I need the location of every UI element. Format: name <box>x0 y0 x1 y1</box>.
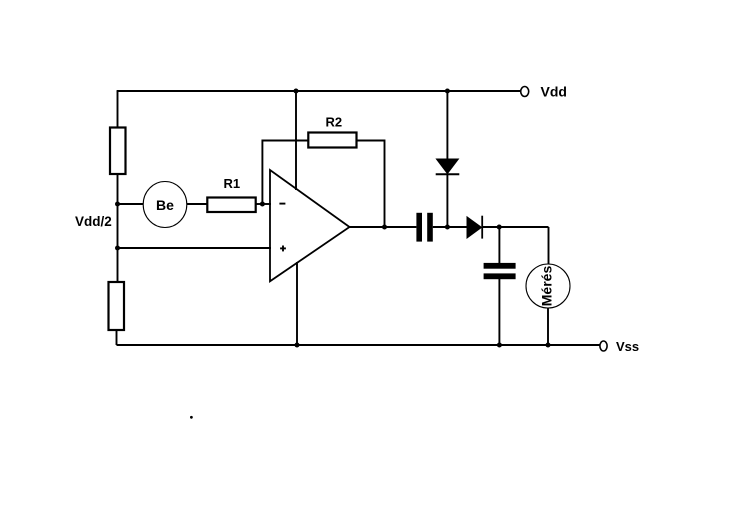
wire: op-amp output to coupling capacitor <box>350 226 417 228</box>
node: D1-output junction dot <box>445 225 450 230</box>
wire: meter to bottom rail <box>547 308 549 345</box>
meter Mérés (circle) <box>526 264 570 308</box>
node: feedback-output junction dot <box>382 225 387 230</box>
stray dot artifact <box>190 416 193 419</box>
wire: node to Be source <box>118 203 144 205</box>
node Vdd/2 junction dot <box>115 202 120 207</box>
terminal Vdd (open circle) <box>521 87 529 97</box>
wire: left rail to divider lower <box>117 248 119 282</box>
wire: divider lower to bottom rail <box>116 330 118 345</box>
wire: divider upper to Vdd/2 node <box>117 174 119 204</box>
wire: capacitor to diode D2 <box>433 226 467 228</box>
svg-text:Vdd/2: Vdd/2 <box>75 214 112 229</box>
wire: right corner down to meter <box>548 227 550 264</box>
capacitor C1 (series coupling, left plate) <box>416 213 422 242</box>
node: D1 junction dot on top rail <box>445 89 450 94</box>
resistor (divider lower) <box>109 282 125 330</box>
wire: feedback up and across to R2 <box>262 141 308 205</box>
node: meter junction dot on bottom rail <box>546 343 551 348</box>
diode D1 cathode bar <box>436 173 460 175</box>
diode D2 (horizontal, anode left) <box>467 217 482 238</box>
capacitor C2 (shunt, top plate) <box>484 263 516 269</box>
op-amp plus symbol <box>280 246 286 252</box>
diode D2 cathode bar <box>481 216 483 239</box>
wire: node to op-amp non-inverting input <box>118 247 272 249</box>
wire: left rail middle segment <box>117 204 119 248</box>
source Be (circle) <box>143 182 187 228</box>
node: C2 junction dot on bottom rail <box>497 343 502 348</box>
wire: op-amp V- supply to bottom rail <box>296 262 298 345</box>
capacitor C1 (right plate) <box>427 213 433 242</box>
diode D1 (vertical, cathode down) <box>436 159 458 174</box>
resistor R1 <box>207 198 255 213</box>
wire: Vdd top rail <box>117 90 521 92</box>
resistor (divider upper) <box>110 128 126 175</box>
node: detector junction dot <box>497 225 502 230</box>
wire: top rail to diode D1 <box>446 91 448 160</box>
node: V+ supply junction dot on top rail <box>294 89 299 94</box>
wire: D2 to detector node and right corner <box>483 226 549 228</box>
wire: Be to R1 <box>187 203 208 205</box>
svg-text:Vss: Vss <box>616 339 639 354</box>
wire: C2 to bottom rail <box>498 279 500 345</box>
wire: op-amp V+ supply from top rail <box>295 91 297 190</box>
svg-text:R2: R2 <box>326 115 343 130</box>
terminal Vss (open circle) <box>600 341 607 351</box>
wire: Vss bottom rail <box>117 344 601 346</box>
resistor R2 <box>308 133 356 148</box>
op-amp U1 (triangle) <box>270 170 350 281</box>
wire: R1 to op-amp inverting input <box>256 203 271 205</box>
node: inverting input junction dot <box>260 202 265 207</box>
op-amp minus symbol <box>279 203 285 205</box>
node: V- supply junction dot on bottom rail <box>295 343 300 348</box>
svg-text:R1: R1 <box>224 176 241 191</box>
wire: D1 to output line <box>446 175 448 227</box>
svg-text:Mérés: Mérés <box>539 266 555 307</box>
capacitor C2 (bottom plate) <box>484 273 516 279</box>
svg-text:Vdd: Vdd <box>541 84 567 100</box>
wire: detector node down to capacitor C2 <box>498 227 500 263</box>
wire: left rail upper segment <box>117 91 119 128</box>
svg-text:Be: Be <box>156 197 174 213</box>
wire: R2 to output node <box>357 141 385 228</box>
node: non-inverting input junction dot <box>115 246 120 251</box>
